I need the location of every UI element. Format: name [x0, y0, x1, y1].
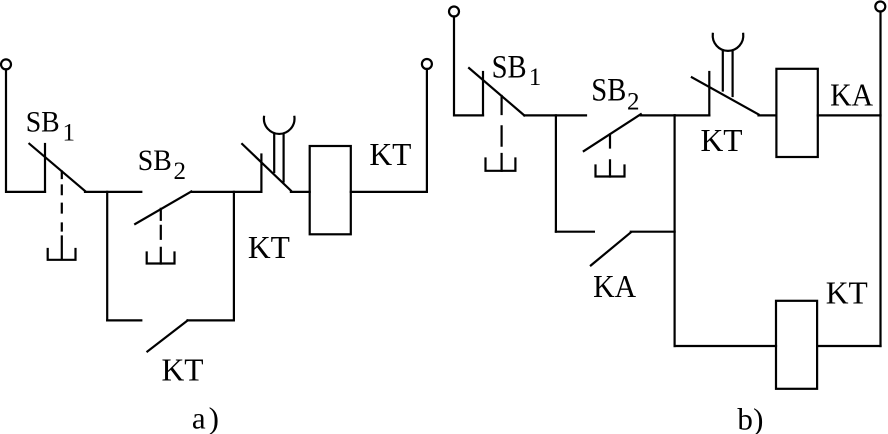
wire (a: SB2 to KT delay contact): [191, 191, 261, 193]
node / junction wire (b: mid rail down to KT coil branch): [673, 115, 675, 346]
contact KT delay movable blade (b): [692, 77, 759, 114]
wire (a: coil to right rail): [351, 69, 427, 192]
svg-text:KT: KT: [701, 123, 743, 158]
pushbutton SB2 movable contact (NO, a): [135, 192, 191, 225]
node / junction wire (a: right drop to KT contact branch): [233, 192, 235, 321]
contact KT self-hold movable blade (NO, a): [147, 321, 187, 352]
node / junction wire (a: left drop to KT contact branch): [106, 192, 108, 321]
wire (b: junction to KT delay contact): [675, 114, 710, 116]
coil KA (b): [776, 69, 817, 157]
label SB2 (a): [138, 144, 186, 185]
svg-text:SB: SB: [138, 144, 172, 177]
pushbutton SB1 actuator cap (b): [486, 159, 516, 171]
contact KT delay linkage double line right (a): [283, 134, 285, 182]
contact KT delay movable blade (a): [242, 144, 291, 191]
svg-text:2: 2: [627, 88, 640, 115]
svg-text:KT: KT: [369, 137, 411, 172]
label SB2 (b): [591, 73, 639, 116]
contact KT delay fixed post (b): [708, 72, 710, 115]
contact KT delay-device arc (a): [264, 117, 295, 134]
contact KA movable blade (NO, b): [591, 232, 631, 265]
svg-text:SB: SB: [26, 105, 60, 138]
pushbutton SB1 movable contact (NC, b): [469, 68, 524, 115]
svg-text:KT: KT: [826, 275, 868, 310]
wire (b: left rail down and right to SB1): [454, 17, 483, 116]
wire (b: right rail): [879, 12, 881, 347]
svg-text:1: 1: [63, 120, 76, 147]
wire (b: KA contact branch right segment): [631, 231, 675, 233]
svg-text:KT: KT: [248, 230, 290, 265]
wire (a: SB1 to SB2): [85, 191, 141, 193]
coil KT (b): [776, 301, 817, 389]
svg-text:b): b): [737, 402, 763, 434]
svg-text:2: 2: [174, 158, 187, 185]
label SB1 (b): [492, 49, 542, 91]
pushbutton SB1 actuator link (dashed, a): [61, 172, 63, 260]
pushbutton SB2 actuator cap (a): [147, 253, 175, 264]
coil KT (a): [310, 146, 351, 234]
terminal (circuit b, left): [449, 7, 459, 17]
terminal (circuit b, right): [875, 2, 885, 12]
svg-text:a): a): [192, 400, 219, 434]
terminal (circuit a, right): [422, 59, 432, 69]
wire (a: bottom branch left segment): [107, 319, 141, 321]
svg-text:SB: SB: [492, 49, 527, 85]
pushbutton SB2 actuator cap (b): [596, 166, 625, 177]
wire (b: KT coil branch left segment): [675, 345, 776, 347]
wire (b: KT coil to right rail): [817, 345, 880, 347]
wire (b: SB2 to junction): [641, 114, 675, 116]
wire (b: KA contact branch left segment): [556, 231, 594, 233]
svg-text:KA: KA: [830, 77, 873, 112]
svg-text:KA: KA: [593, 269, 636, 304]
wire (a: left rail down and right to SB1): [6, 69, 45, 191]
pushbutton SB2 actuator link (dashed, a): [160, 209, 162, 264]
pushbutton SB1 fixed contact post (a): [44, 144, 46, 192]
svg-text:SB: SB: [591, 73, 626, 109]
contact KT delay-device arc (b): [713, 34, 744, 51]
node / junction wire (b: drop to KA contact branch): [555, 115, 557, 231]
contact KT delay fixed post (a): [260, 155, 262, 192]
terminal (circuit a, left): [1, 59, 11, 69]
pushbutton SB2 actuator link (dashed, b): [609, 135, 611, 177]
pushbutton SB1 actuator link (dashed, b): [501, 96, 503, 171]
wire (b: SB1 to SB2): [524, 114, 586, 116]
svg-text:KT: KT: [162, 353, 204, 388]
wire (b: delay contact to KA coil): [759, 114, 777, 116]
wire (a: delay contact to coil): [291, 191, 310, 193]
contact KT delay linkage double line right (b): [731, 51, 733, 96]
pushbutton SB2 movable contact (NO, b): [584, 114, 641, 151]
pushbutton SB1 fixed contact post (b): [482, 72, 484, 115]
wire (b: KA coil to right rail): [818, 114, 881, 116]
contact KT delay linkage double line left (a): [273, 134, 275, 172]
wire (a: bottom branch right segment): [188, 319, 234, 321]
label SB1 (a): [26, 105, 75, 146]
contact KT delay linkage double line left (b): [722, 51, 724, 91]
svg-text:1: 1: [529, 64, 542, 91]
pushbutton SB1 actuator cap (a): [48, 249, 76, 260]
pushbutton SB1 movable contact (NC, a): [29, 144, 85, 191]
